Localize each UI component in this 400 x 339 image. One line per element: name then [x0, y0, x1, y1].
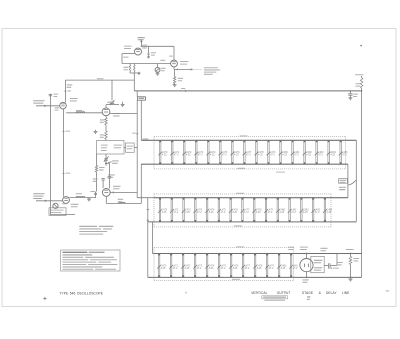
delay section R1-1 trimmer — [170, 140, 179, 164]
coupling cap — [95, 192, 97, 198]
wire row1 bottom rail — [141, 163, 348, 165]
tube V434A — [102, 108, 110, 116]
delay section R2-5 trimmer — [217, 198, 226, 223]
svg-text:47-2: 47-2 — [222, 155, 227, 157]
svg-text:4-25: 4-25 — [306, 155, 311, 157]
arrow annotation — [331, 266, 333, 268]
wire loop right inner x=347.9 — [347, 164, 349, 198]
svg-text:4-25: 4-25 — [210, 155, 215, 157]
delay section R2-8 trimmer — [252, 198, 262, 223]
wire bottom rail — [50, 214, 75, 216]
wire V434B cathode loop — [105, 196, 107, 203]
pin top V479 — [306, 254, 308, 259]
delay section R1-3 trimmer — [194, 140, 203, 164]
delay section R3-11 trimmer — [289, 253, 298, 277]
delay line row3 shield dashed box — [154, 246, 294, 248]
label V453B 6DJ8 — [180, 61, 188, 62]
delay section R2-11 trimmer — [288, 198, 297, 223]
ground C454 — [147, 56, 150, 58]
svg-text:47-2: 47-2 — [245, 268, 250, 270]
label V434B — [113, 186, 121, 187]
label on bus — [97, 78, 104, 79]
wire stub x=337 — [336, 254, 338, 266]
page mark right — [386, 290, 390, 291]
svg-text:DELAY: DELAY — [326, 291, 337, 295]
delay section R1-14 trimmer — [327, 140, 337, 164]
coil L436 — [119, 202, 126, 203]
svg-text:47-2: 47-2 — [291, 212, 296, 214]
capacitor C487 — [327, 263, 329, 268]
svg-text:47-2: 47-2 — [342, 155, 347, 157]
svg-text:47-2: 47-2 — [269, 268, 274, 270]
notes box voltage conditions — [61, 250, 120, 271]
svg-text:4-25: 4-25 — [330, 155, 335, 157]
junction tick — [185, 90, 187, 92]
delay section R1-13 trimmer — [315, 140, 324, 164]
label delay line 2 — [339, 187, 346, 188]
delay section R1-4 trimmer — [207, 140, 217, 164]
delay section R1-2 trimmer — [182, 140, 192, 164]
delay section R3-8 trimmer — [253, 253, 263, 277]
triode V453B — [171, 60, 178, 67]
resistor R487 — [350, 254, 352, 257]
svg-text:4-25: 4-25 — [258, 155, 263, 157]
label pins 1,4 — [302, 279, 308, 280]
wire row1 top rail — [141, 139, 356, 141]
delay section R1-7 trimmer — [243, 140, 252, 164]
label L455 box — [138, 97, 146, 100]
svg-text:4-25: 4-25 — [232, 212, 237, 214]
label top right corner row2 — [340, 189, 345, 190]
svg-text:4-25: 4-25 — [186, 155, 191, 157]
delay section R2-1 trimmer — [170, 198, 179, 223]
resistor R455 — [129, 65, 131, 72]
wire row2 entry — [137, 197, 154, 199]
supply rail x=361.6 with resistor R459 — [361, 76, 363, 78]
wire row1 bottom down x=141.3 — [140, 164, 142, 203]
label row1 bottom — [237, 168, 245, 169]
svg-text:4-25: 4-25 — [162, 155, 167, 157]
tiny registration mark top right — [360, 45, 362, 47]
cap above V434B — [101, 178, 104, 180]
svg-text:47-2: 47-2 — [293, 268, 298, 270]
grid drop to V434A — [111, 80, 113, 100]
resistor R435b — [105, 125, 107, 131]
delay section R1-15 trimmer — [339, 140, 348, 164]
svg-text:47-2: 47-2 — [294, 155, 299, 157]
label R455 — [123, 67, 128, 68]
label DL470 boxed — [339, 179, 348, 184]
svg-text:4-25: 4-25 — [279, 212, 284, 214]
delay section R3-10 trimmer — [277, 253, 287, 277]
svg-text:4-25: 4-25 — [234, 155, 239, 157]
svg-text:TYPE 546 OSCILLOSCOPE: TYPE 546 OSCILLOSCOPE — [60, 292, 104, 296]
ground stub left — [95, 130, 97, 131]
wire to V453B plate — [173, 46, 175, 60]
delay section R1-0 trimmer — [158, 140, 168, 164]
label R459 — [355, 83, 361, 84]
wire V433B plate right — [69, 197, 96, 199]
node plate V454A — [141, 46, 142, 47]
CRT deflection tube V479 — [300, 259, 313, 272]
tube V433A — [60, 102, 67, 109]
pin wire box2 — [134, 147, 137, 149]
ground output — [350, 277, 352, 278]
svg-text:4-25: 4-25 — [303, 212, 308, 214]
label row2 bottom — [234, 225, 242, 226]
wire input lower with arrow — [36, 200, 62, 202]
note AT TRIG POINT text — [204, 67, 218, 68]
svg-text:4-25: 4-25 — [185, 212, 190, 214]
label C470 with arrow — [108, 161, 112, 164]
resistor R435a — [105, 116, 107, 118]
delay section R3-0 trimmer — [157, 253, 167, 277]
wire row3 top rail — [153, 253, 362, 255]
svg-text:4-25: 4-25 — [209, 212, 214, 214]
delay section R1-8 trimmer — [255, 140, 265, 164]
label below row1 dashed — [276, 172, 285, 173]
label R453 — [178, 78, 184, 79]
label L469 — [142, 138, 148, 139]
label V434A — [113, 113, 121, 114]
mark A — [307, 296, 310, 297]
termination box 2 — [126, 143, 135, 152]
svg-text:47-2: 47-2 — [173, 212, 178, 214]
pin bottom V479 — [306, 272, 308, 278]
wire loop left inner x=152.6 — [152, 222, 154, 254]
svg-text:OUTPUT: OUTPUT — [277, 291, 291, 295]
label V433A — [70, 98, 78, 99]
label 42V tick — [136, 133, 138, 135]
wire screen bypass — [148, 46, 150, 53]
label row1 top — [240, 135, 248, 136]
svg-text:4-25: 4-25 — [209, 268, 214, 270]
svg-text:4-25: 4-25 — [162, 212, 167, 214]
svg-text:4-25: 4-25 — [257, 268, 262, 270]
svg-text:4-25: 4-25 — [281, 268, 286, 270]
delay section R3-4 trimmer — [205, 253, 215, 277]
svg-text:A: A — [185, 290, 187, 294]
svg-text:47-2: 47-2 — [315, 212, 320, 214]
wire L434 from V433A — [66, 112, 102, 114]
svg-text:47-2: 47-2 — [197, 268, 202, 270]
delay section R2-3 trimmer — [194, 198, 203, 223]
wire V434B plate — [110, 191, 137, 193]
label row3 bottom — [232, 279, 240, 280]
label R450 — [123, 57, 128, 58]
svg-text:47-2: 47-2 — [174, 155, 179, 157]
label R487 — [353, 258, 359, 259]
ground C455 — [156, 72, 160, 74]
svg-text:47-2: 47-2 — [270, 155, 275, 157]
delay section R1-5 trimmer — [219, 140, 228, 164]
ground cathode V454A — [138, 72, 140, 73]
wire row2 bottom rail — [148, 221, 356, 223]
termination network box — [105, 139, 107, 141]
input label lower FROM VERT AMP — [33, 193, 44, 194]
label row2 top — [236, 193, 244, 194]
wire grid V454A — [122, 53, 135, 55]
svg-text:47-2: 47-2 — [268, 212, 273, 214]
ground grid V434A — [105, 105, 107, 108]
coil L434 — [76, 112, 85, 113]
label R433 — [55, 107, 60, 108]
svg-text:LINE: LINE — [342, 291, 350, 295]
label B489 — [288, 247, 294, 248]
ground R453 — [174, 84, 176, 85]
label C455 — [161, 68, 166, 69]
delay section R1-11 trimmer — [291, 140, 300, 164]
svg-text:4-25: 4-25 — [233, 268, 238, 270]
wire V434A plate to feed — [110, 112, 137, 114]
hop tick upper — [147, 209, 149, 211]
label +350V output — [346, 249, 354, 250]
tube V434B — [102, 189, 110, 197]
tick L464 — [63, 131, 65, 133]
svg-text:47-2: 47-2 — [198, 155, 203, 157]
coil box L488 — [311, 256, 324, 272]
delay section R3-3 trimmer — [193, 253, 202, 277]
trimmer C455 — [157, 64, 159, 68]
coil L489 label — [300, 247, 308, 248]
delay section R2-9 trimmer — [264, 198, 273, 223]
capacitor C430 — [49, 93, 52, 95]
svg-text:47-2: 47-2 — [221, 268, 226, 270]
wire row3 bottom rail — [148, 276, 362, 278]
coil L435 — [76, 196, 85, 197]
delay line row2 shield dashed box — [154, 193, 331, 195]
svg-text:4-25: 4-25 — [282, 155, 287, 157]
wire feed row1 top x=141.3 — [140, 100, 142, 140]
label +350V top — [355, 74, 364, 75]
delay section R2-4 trimmer — [205, 198, 215, 223]
wire cathode chain x=63.5 — [63, 109, 65, 197]
svg-text:47-2: 47-2 — [318, 155, 323, 157]
label V433B — [71, 204, 79, 205]
delay line row1 shield dashed box — [154, 135, 346, 137]
svg-text:47-2: 47-2 — [221, 212, 226, 214]
trimmer C434 — [110, 101, 114, 103]
+225V supply T-bar — [138, 39, 144, 41]
svg-text:47-2: 47-2 — [173, 268, 178, 270]
capacitor C459 on long bus — [349, 91, 351, 94]
resistor R453 — [174, 69, 176, 76]
delay section R2-7 trimmer — [241, 198, 250, 223]
resistor R471 — [96, 154, 98, 166]
trimmer C470 — [105, 154, 107, 166]
decoupling label C450 — [142, 45, 147, 46]
svg-text:4-25: 4-25 — [161, 268, 166, 270]
capacitor C433 leg — [64, 80, 66, 102]
wire plate bus y=46.3 — [141, 45, 174, 47]
delay section R2-2 trimmer — [182, 198, 192, 223]
svg-text:VERTICAL: VERTICAL — [251, 291, 267, 295]
label C488 — [336, 262, 343, 263]
label C454 — [151, 52, 156, 53]
label V454A 6DK6 — [124, 46, 132, 47]
capacitor C454 — [148, 52, 150, 54]
label row3 top — [236, 246, 244, 247]
ground mid — [88, 198, 90, 199]
note text mid — [79, 226, 97, 227]
resistor R456 — [134, 65, 136, 72]
plus registration mark — [44, 297, 46, 300]
delay section R2-0 trimmer — [158, 198, 168, 223]
svg-text:47-2: 47-2 — [244, 212, 249, 214]
crossover hop arc — [348, 180, 356, 185]
delay section R3-7 trimmer — [241, 253, 250, 277]
delay section R1-6 trimmer — [231, 140, 241, 164]
delay section R2-13 trimmer — [311, 198, 320, 223]
delay section R3-6 trimmer — [229, 253, 239, 277]
svg-text:47-2: 47-2 — [197, 212, 202, 214]
label L488 above rail — [320, 248, 327, 249]
delay section R3-5 trimmer — [217, 253, 226, 277]
wire interstage bus y=63.5 — [122, 63, 171, 65]
pentode V454A — [135, 48, 142, 55]
title sub box — [262, 296, 288, 299]
delay section R3-9 trimmer — [265, 253, 274, 277]
wire plate V433A bus y=80.1 — [65, 79, 134, 81]
capacitor C471 — [108, 163, 110, 176]
svg-text:4-25: 4-25 — [256, 212, 261, 214]
wire V453B cathode out — [173, 67, 175, 70]
wire input upper with arrow — [36, 105, 60, 107]
label C459 — [353, 94, 358, 95]
+225V supply label — [137, 37, 145, 38]
grid return rail x=50.4 — [49, 94, 51, 215]
delay section R2-10 trimmer — [276, 198, 286, 223]
tube V433B — [63, 197, 70, 204]
tick R464 — [63, 173, 65, 175]
delay section R2-12 trimmer — [300, 198, 310, 223]
wire long bus y=90.9 — [134, 90, 361, 92]
input label upper FROM VERT AMP — [33, 100, 44, 101]
svg-text:47-2: 47-2 — [246, 155, 251, 157]
wire to C487 — [324, 264, 328, 266]
delay section R1-10 trimmer — [279, 140, 289, 164]
input connector box — [53, 203, 58, 208]
hop tick lower — [147, 219, 149, 221]
wire feed row2 x=137.2 — [136, 100, 138, 198]
delay section R2-14 trimmer — [323, 198, 333, 223]
label 4.7 tick — [169, 56, 173, 57]
delay section R3-1 trimmer — [169, 253, 178, 277]
arrow to trigger pickoff — [191, 68, 194, 70]
wire loop right outer x=356.3 — [355, 140, 357, 222]
label L453 — [160, 60, 165, 61]
delay section R3-2 trimmer — [181, 253, 191, 277]
svg-text:STAGE: STAGE — [302, 291, 313, 295]
wire row2 top rail — [154, 197, 348, 199]
delay section R1-12 trimmer — [303, 140, 313, 164]
ground C459 — [348, 97, 352, 99]
delay section R2-6 trimmer — [229, 198, 239, 223]
wire loop left outer x=147.8 — [147, 198, 149, 278]
svg-text:4-25: 4-25 — [327, 212, 332, 214]
delay section R1-9 trimmer — [267, 140, 276, 164]
svg-text:4-25: 4-25 — [185, 268, 190, 270]
